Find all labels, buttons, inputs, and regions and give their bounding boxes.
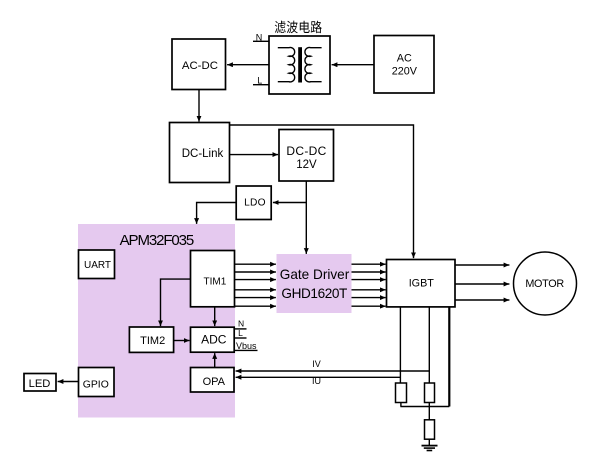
svg-text:Vbus: Vbus xyxy=(236,341,257,351)
svg-text:L: L xyxy=(257,76,262,86)
svg-text:DC-Link: DC-Link xyxy=(182,148,224,160)
svg-text:APM32F035: APM32F035 xyxy=(120,232,194,249)
svg-text:DC-DC: DC-DC xyxy=(286,144,326,158)
svg-text:Gate Driver: Gate Driver xyxy=(280,267,350,282)
svg-text:ADC: ADC xyxy=(201,333,227,347)
svg-text:N: N xyxy=(238,318,244,328)
svg-text:N: N xyxy=(256,32,263,42)
svg-text:GPIO: GPIO xyxy=(83,380,109,391)
svg-text:IU: IU xyxy=(312,376,321,386)
svg-text:UART: UART xyxy=(84,260,111,271)
svg-text:IV: IV xyxy=(312,359,321,369)
svg-text:220V: 220V xyxy=(392,66,418,78)
svg-text:LDO: LDO xyxy=(244,197,266,208)
svg-text:AC-DC: AC-DC xyxy=(182,60,218,72)
svg-text:GHD1620T: GHD1620T xyxy=(281,286,347,301)
svg-text:L: L xyxy=(238,328,243,338)
svg-text:12V: 12V xyxy=(296,159,317,171)
svg-text:LED: LED xyxy=(29,378,51,390)
svg-text:AC: AC xyxy=(397,52,412,64)
svg-text:MOTOR: MOTOR xyxy=(525,278,564,290)
svg-text:OPA: OPA xyxy=(203,376,226,388)
svg-text:TIM1: TIM1 xyxy=(204,277,227,288)
svg-text:IGBT: IGBT xyxy=(409,278,435,290)
svg-text:TIM2: TIM2 xyxy=(140,335,165,347)
